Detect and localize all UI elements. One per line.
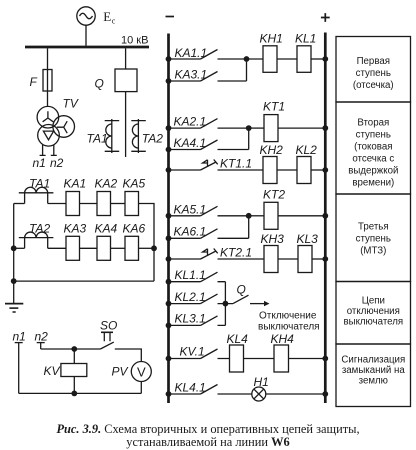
svg-text:KA1: KA1: [64, 177, 87, 191]
label PV: [112, 365, 129, 379]
junction row2 right: [151, 245, 157, 251]
transformer TV: [37, 106, 74, 146]
label H1: [254, 375, 269, 389]
label KA4.1: [174, 136, 207, 150]
relay coil KV: [61, 364, 87, 377]
label KA6: [123, 222, 146, 236]
svg-text:(МТЗ): (МТЗ): [360, 246, 386, 257]
terminal n1: [15, 343, 23, 394]
svg-text:c: c: [112, 17, 116, 26]
label KH1: [260, 32, 283, 46]
svg-text:KA2: KA2: [95, 177, 118, 191]
label minus: [166, 16, 175, 18]
label KA4: [95, 222, 118, 236]
label plus: [321, 13, 330, 22]
svg-text:KL3: KL3: [297, 232, 319, 246]
negative rail: [167, 34, 170, 404]
annotation box Вторая ступень: [336, 102, 411, 194]
junction KV.1 rail: [166, 356, 172, 362]
relay coil KL1: [297, 46, 311, 73]
relay coil KH2: [263, 157, 277, 184]
junction KL4.1 rail: [166, 391, 172, 397]
wire row2 right: [139, 247, 155, 249]
svg-text:Отключение: Отключение: [259, 311, 317, 322]
junction KA6.1 rail: [166, 235, 172, 241]
annotation box Первая ступень: [336, 37, 411, 103]
svg-text:отключения: отключения: [347, 306, 400, 317]
text Третья ступень (МТЗ): [356, 222, 391, 257]
label n1: [13, 330, 26, 344]
ground: [5, 304, 23, 312]
svg-text:землю: землю: [359, 376, 388, 387]
label KT1.1: [220, 157, 252, 171]
terminal n2: [37, 343, 45, 349]
wire KH3 to KL3: [278, 258, 298, 260]
contact KT2.1 (time delay): [170, 249, 264, 260]
label KL1.1: [175, 268, 206, 282]
svg-text:KT1: KT1: [263, 100, 285, 114]
wire KL4 to KH4: [244, 358, 275, 360]
contact KL1.1: [170, 272, 225, 282]
wire row1 right: [139, 204, 155, 282]
TV secondary terminals: [40, 145, 57, 156]
node KA5.1/KA6.1: [246, 213, 252, 219]
source Ec: [77, 7, 95, 25]
svg-text:Q: Q: [95, 77, 104, 91]
text Вторая ступень: [348, 118, 398, 189]
svg-text:V: V: [137, 365, 146, 380]
svg-text:KL1: KL1: [295, 32, 316, 46]
label KA1: [64, 177, 87, 191]
svg-text:выключателя: выключателя: [343, 317, 403, 328]
wire node to KT2: [249, 215, 264, 217]
junction KL1 plus rail: [322, 56, 328, 62]
svg-text:(отсечка): (отсечка): [353, 80, 394, 91]
contact KL4.1: [170, 385, 252, 395]
relay coil KA5: [125, 192, 139, 216]
label KV.1: [180, 345, 205, 359]
wire PV bottom: [140, 382, 142, 394]
label KA5.1: [174, 203, 207, 217]
junction KL1.1 rail: [166, 279, 172, 285]
contact KA3.1: [170, 59, 247, 81]
contact Q trip coil: [225, 295, 248, 303]
label Отключение выключателя: [258, 311, 320, 333]
wire KT2 to plus rail: [278, 215, 325, 217]
svg-text:KV: KV: [44, 364, 61, 378]
relay coil KT2: [264, 202, 278, 229]
label SO: [100, 319, 117, 333]
svg-text:KL1.1: KL1.1: [175, 268, 206, 282]
wire row2 left: [14, 247, 25, 249]
node trip: [223, 301, 229, 307]
caption line 1: [56, 422, 359, 436]
text Цепи отключения выключателя: [343, 296, 403, 328]
push button SO: [100, 332, 113, 349]
junction KA3.1 rail: [166, 78, 172, 84]
contact KT1.1 (time delay): [170, 160, 263, 171]
svg-text:Третья: Третья: [358, 222, 389, 233]
caption line 2: [126, 435, 289, 449]
label n1 (TV): [33, 156, 46, 170]
label KA3.1: [175, 68, 208, 82]
svg-text:KT1.1: KT1.1: [220, 157, 252, 171]
svg-text:KA6: KA6: [123, 222, 146, 236]
svg-text:отсечка с: отсечка с: [352, 154, 394, 165]
arrow trip action: [250, 301, 270, 306]
svg-text:H1: H1: [254, 375, 269, 389]
label KA1.1: [175, 46, 208, 60]
svg-text:KA6.1: KA6.1: [174, 225, 207, 239]
junction H1 plus rail: [322, 391, 328, 397]
label KT1: [263, 100, 285, 114]
svg-text:Цепи: Цепи: [362, 296, 385, 307]
node KA1.1/KA3.1: [244, 56, 250, 62]
relay coil KA2: [97, 192, 111, 216]
wire KV branch top: [73, 349, 75, 364]
svg-text:KA2.1: KA2.1: [174, 115, 207, 129]
label TA1 secondary: [29, 177, 50, 191]
label KL4: [227, 332, 249, 346]
label F: [30, 75, 38, 89]
label KL2: [296, 143, 318, 157]
breaker Q: [115, 69, 137, 92]
junction KA1.1 rail: [166, 56, 172, 62]
wire trip bus vertical: [224, 282, 226, 326]
TA1 secondary winding: [19, 187, 54, 203]
junction riser row2: [11, 245, 17, 251]
positive rail: [324, 33, 327, 404]
label V inside meter: [137, 365, 146, 380]
relay coil KA3: [66, 236, 80, 260]
label KL3: [297, 232, 319, 246]
svg-text:n2: n2: [50, 156, 64, 170]
contact KV.1: [170, 349, 230, 359]
contact KA6.1: [170, 216, 249, 239]
svg-text:TA2: TA2: [142, 132, 163, 146]
wire KL3 to plus rail: [312, 258, 325, 260]
lamp H1: [252, 387, 266, 401]
label Q: [95, 77, 104, 91]
svg-text:TA1: TA1: [87, 132, 108, 146]
svg-text:TA1: TA1: [29, 177, 50, 191]
wire row2 winding to KA3: [48, 247, 66, 249]
wire bus to fuse F: [47, 48, 49, 69]
wire KA1 to KA2: [80, 203, 98, 205]
label Q trip: [237, 283, 246, 297]
label TA1: [87, 132, 108, 146]
junction KA4.1 rail: [166, 147, 172, 153]
label KL3.1: [175, 312, 206, 326]
svg-text:E: E: [103, 9, 111, 24]
wire bottom return (voltage circuit): [19, 392, 142, 394]
relay coil KL2: [297, 157, 311, 184]
label KT2.1: [220, 246, 252, 260]
feeder wire W6: [125, 92, 127, 157]
svg-text:KL4.1: KL4.1: [175, 381, 206, 395]
wire source to bus: [85, 25, 87, 46]
svg-text:устанавливаемой на линии W6: устанавливаемой на линии W6: [126, 435, 289, 449]
svg-text:ступень: ступень: [356, 234, 391, 245]
label TA2 secondary: [29, 222, 50, 236]
svg-text:KL2.1: KL2.1: [175, 290, 206, 304]
voltmeter PV: [131, 362, 151, 382]
node KA2.1/KA4.1: [246, 125, 252, 131]
svg-text:KL3.1: KL3.1: [175, 312, 206, 326]
relay coil KL3: [298, 246, 312, 273]
label TV: [63, 97, 79, 111]
svg-text:выдержкой: выдержкой: [348, 166, 398, 177]
contact KA5.1: [170, 206, 249, 216]
svg-text:Рис. 3.9. Схема вторичных и оп: Рис. 3.9. Схема вторичных и оперативных …: [56, 422, 359, 436]
svg-text:KL2: KL2: [296, 143, 318, 157]
wire left riser: [13, 204, 15, 304]
contact KA2.1: [170, 119, 249, 129]
contact KL2.1: [170, 294, 225, 304]
label KA5: [123, 177, 146, 191]
wire KH1 to KL1: [277, 58, 297, 60]
svg-text:KA5.1: KA5.1: [174, 203, 207, 217]
relay coil KL4: [230, 345, 244, 372]
svg-text:SO: SO: [100, 319, 117, 333]
svg-text:n1: n1: [33, 156, 46, 170]
svg-text:KT2.1: KT2.1: [220, 246, 252, 260]
svg-text:PV: PV: [112, 365, 129, 379]
junction KH4 plus rail: [322, 356, 328, 362]
svg-text:замыканий на: замыканий на: [342, 365, 406, 376]
label KL4.1: [175, 381, 206, 395]
junction KL2 plus rail: [322, 167, 328, 173]
label KA2: [95, 177, 118, 191]
svg-text:KA4.1: KA4.1: [174, 136, 207, 150]
wire KA4 to KA6: [111, 247, 126, 249]
svg-text:KH2: KH2: [260, 143, 284, 157]
relay coil KA1: [66, 192, 80, 216]
relay coil KA6: [125, 236, 139, 260]
svg-text:n1: n1: [13, 330, 26, 344]
wire KL2 to plus rail: [311, 169, 325, 171]
annotation box Третья ступень: [336, 194, 411, 282]
wire bus to breaker Q: [125, 48, 127, 69]
svg-text:KA4: KA4: [95, 222, 118, 236]
wire bottom return: [14, 280, 154, 282]
svg-text:Вторая: Вторая: [357, 118, 389, 129]
svg-text:KH4: KH4: [271, 332, 295, 346]
relay coil KH4: [274, 345, 289, 372]
label TA2: [142, 132, 163, 146]
label n2: [35, 330, 49, 344]
svg-text:10 кВ: 10 кВ: [121, 35, 148, 47]
annotation box Цепи отключения: [336, 282, 411, 345]
label KA3: [64, 222, 87, 236]
junction KT2 plus rail: [322, 213, 328, 219]
label KH3: [261, 232, 285, 246]
junction KA5.1 rail: [166, 213, 172, 219]
svg-text:Сигнализация: Сигнализация: [341, 355, 405, 366]
svg-text:KL4: KL4: [227, 332, 249, 346]
svg-text:Первая: Первая: [357, 56, 390, 67]
wire KH2 to KL2: [277, 169, 297, 171]
CT TA2: [131, 119, 146, 153]
junction riser bottom: [11, 278, 17, 284]
text Первая ступень (отсечка): [353, 56, 394, 91]
junction KT2.1 rail: [166, 256, 172, 262]
CT TA1: [105, 119, 120, 153]
wire KV branch bottom: [73, 377, 75, 394]
wire n2 to SO: [41, 348, 101, 350]
svg-text:ступень: ступень: [356, 68, 391, 79]
svg-text:KH3: KH3: [261, 232, 285, 246]
contact KL3.1: [170, 316, 225, 326]
svg-text:F: F: [30, 75, 38, 89]
svg-text:Q: Q: [237, 283, 246, 297]
bus 10 kV: [25, 46, 149, 49]
svg-text:TV: TV: [63, 97, 79, 111]
text Сигнализация замыканий на землю: [341, 355, 405, 387]
wire fuse to TV: [47, 91, 49, 107]
label KL2.1: [175, 290, 206, 304]
svg-text:KA3.1: KA3.1: [175, 68, 208, 82]
relay coil KH3: [264, 246, 278, 273]
wire KA3 to KA4: [80, 247, 98, 249]
annotation box Сигнализация: [336, 344, 411, 407]
junction KL3 plus rail: [322, 256, 328, 262]
svg-text:выключателя: выключателя: [258, 322, 320, 333]
label KH2: [260, 143, 284, 157]
label KH4: [271, 332, 295, 346]
label 10 кВ: [121, 35, 148, 47]
contact KA1.1: [170, 50, 247, 60]
svg-text:KT2: KT2: [263, 188, 285, 202]
svg-text:KV.1: KV.1: [180, 345, 205, 359]
wire KT1 to plus rail: [278, 127, 325, 129]
svg-text:KA3: KA3: [64, 222, 87, 236]
label KL1: [295, 32, 316, 46]
label Ec: [103, 9, 116, 25]
wire row1 left: [14, 203, 25, 205]
wire KH4 to plus rail: [289, 358, 326, 360]
wire row1 winding to KA1: [48, 203, 66, 205]
label KA2.1: [174, 115, 207, 129]
svg-text:TA2: TA2: [29, 222, 50, 236]
svg-text:KH1: KH1: [260, 32, 283, 46]
junction KV bottom: [71, 391, 77, 397]
label KA6.1: [174, 225, 207, 239]
relay coil KA4: [97, 236, 111, 260]
contact KA4.1: [170, 128, 249, 149]
svg-text:KA5: KA5: [123, 177, 146, 191]
relay coil KH1: [263, 46, 277, 73]
wire node to KH1: [247, 58, 264, 60]
junction KT1.1 rail: [166, 167, 172, 173]
label KV: [44, 364, 61, 378]
fuse F: [43, 70, 52, 92]
wire KL1 to plus rail: [311, 58, 325, 60]
TA2 secondary winding: [19, 232, 54, 248]
wire H1 to plus rail: [266, 393, 326, 395]
svg-text:n2: n2: [35, 330, 49, 344]
relay coil KT1: [264, 115, 278, 142]
junction KT1 plus rail: [322, 125, 328, 131]
junction KL2.1 rail: [166, 301, 172, 307]
junction KA2.1 rail: [166, 125, 172, 131]
label n2 (TV): [50, 156, 64, 170]
svg-text:KA1.1: KA1.1: [175, 46, 208, 60]
wire SO to PV: [115, 349, 142, 362]
junction KV top: [71, 346, 77, 352]
wire KA2 to KA5: [111, 203, 126, 205]
wire node to KT1: [249, 127, 264, 129]
junction KL3.1 rail: [166, 323, 172, 329]
svg-text:ступень: ступень: [356, 130, 391, 141]
svg-text:времени): времени): [352, 178, 394, 189]
label KT2: [263, 188, 285, 202]
svg-text:(токовая: (токовая: [354, 142, 392, 153]
